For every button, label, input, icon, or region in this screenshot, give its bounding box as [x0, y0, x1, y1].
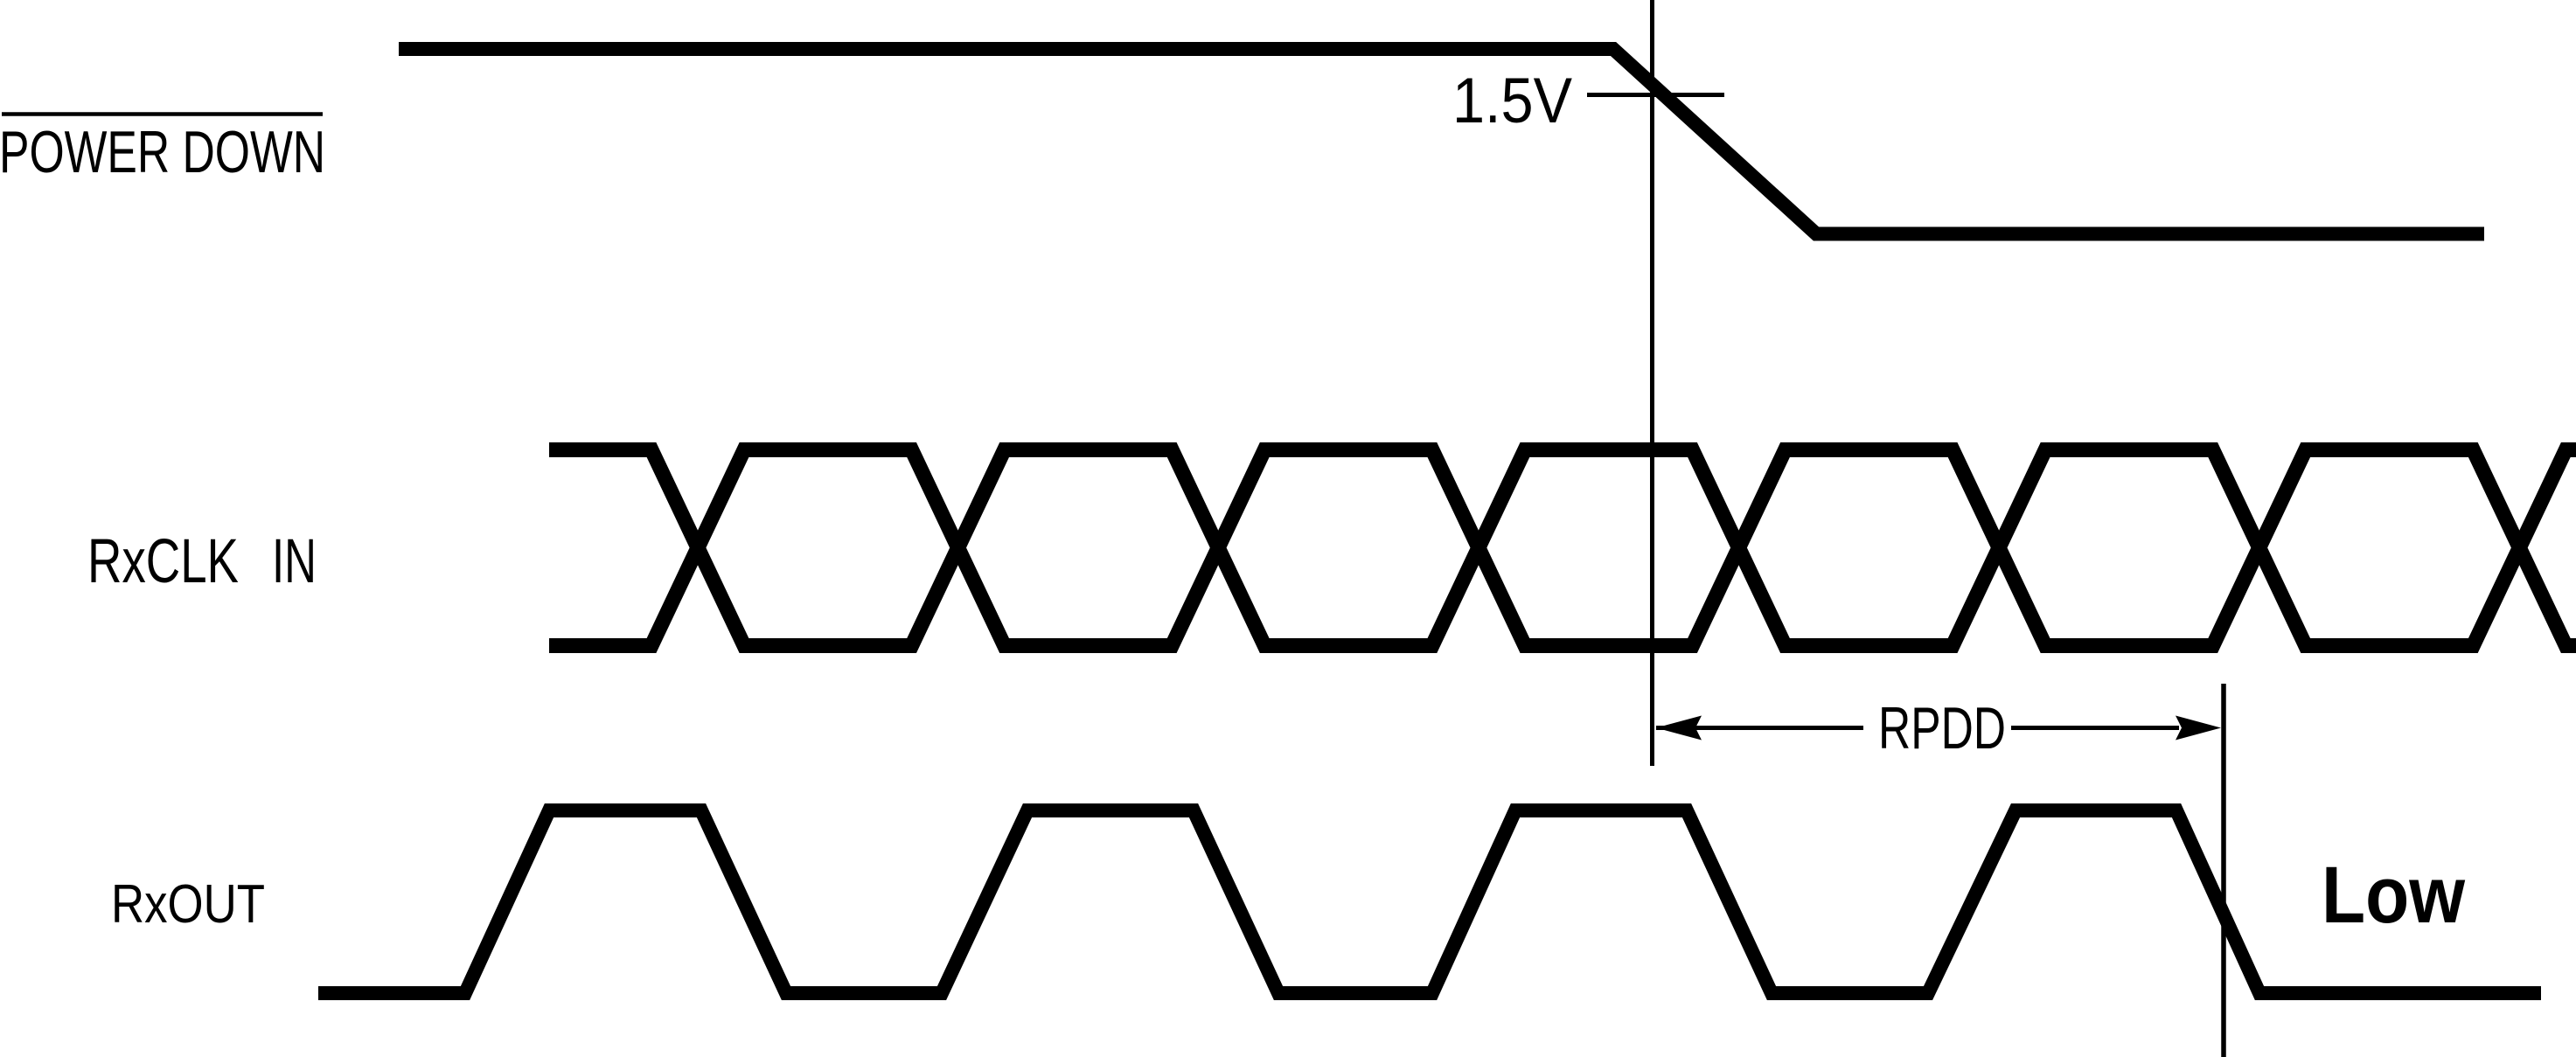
- wire RxCLK IN eye pattern upper zigzag: [549, 450, 2576, 646]
- node 1.5V tick mark: [1587, 93, 1724, 97]
- svg-text:IN: IN: [272, 527, 317, 596]
- svg-text:RxOUT: RxOUT: [111, 874, 265, 935]
- node RPDD dimension arrow right shaft: [2011, 726, 2179, 730]
- svg-text:1.5V: 1.5V: [1452, 66, 1572, 136]
- svg-text:RPDD: RPDD: [1878, 695, 2006, 761]
- node RPDD right arrowhead: [2176, 716, 2221, 741]
- svg-text:RxCLK: RxCLK: [87, 527, 239, 596]
- svg-text:Low: Low: [2322, 851, 2465, 940]
- node RxOUT disable cursor line: [2221, 684, 2226, 1057]
- node POWER DOWN label overline: [2, 112, 323, 116]
- wire POWER DOWN waveform: [399, 49, 2484, 234]
- wire RxOUT waveform: [318, 810, 2541, 993]
- node RPDD dimension arrow left shaft: [1656, 726, 1863, 730]
- node 1.5V reference vertical cursor line: [1650, 0, 1654, 766]
- svg-text:POWER DOWN: POWER DOWN: [0, 119, 325, 185]
- wire RxCLK IN eye pattern lower zigzag: [549, 450, 2576, 646]
- node RPDD left arrowhead: [1656, 716, 1702, 741]
